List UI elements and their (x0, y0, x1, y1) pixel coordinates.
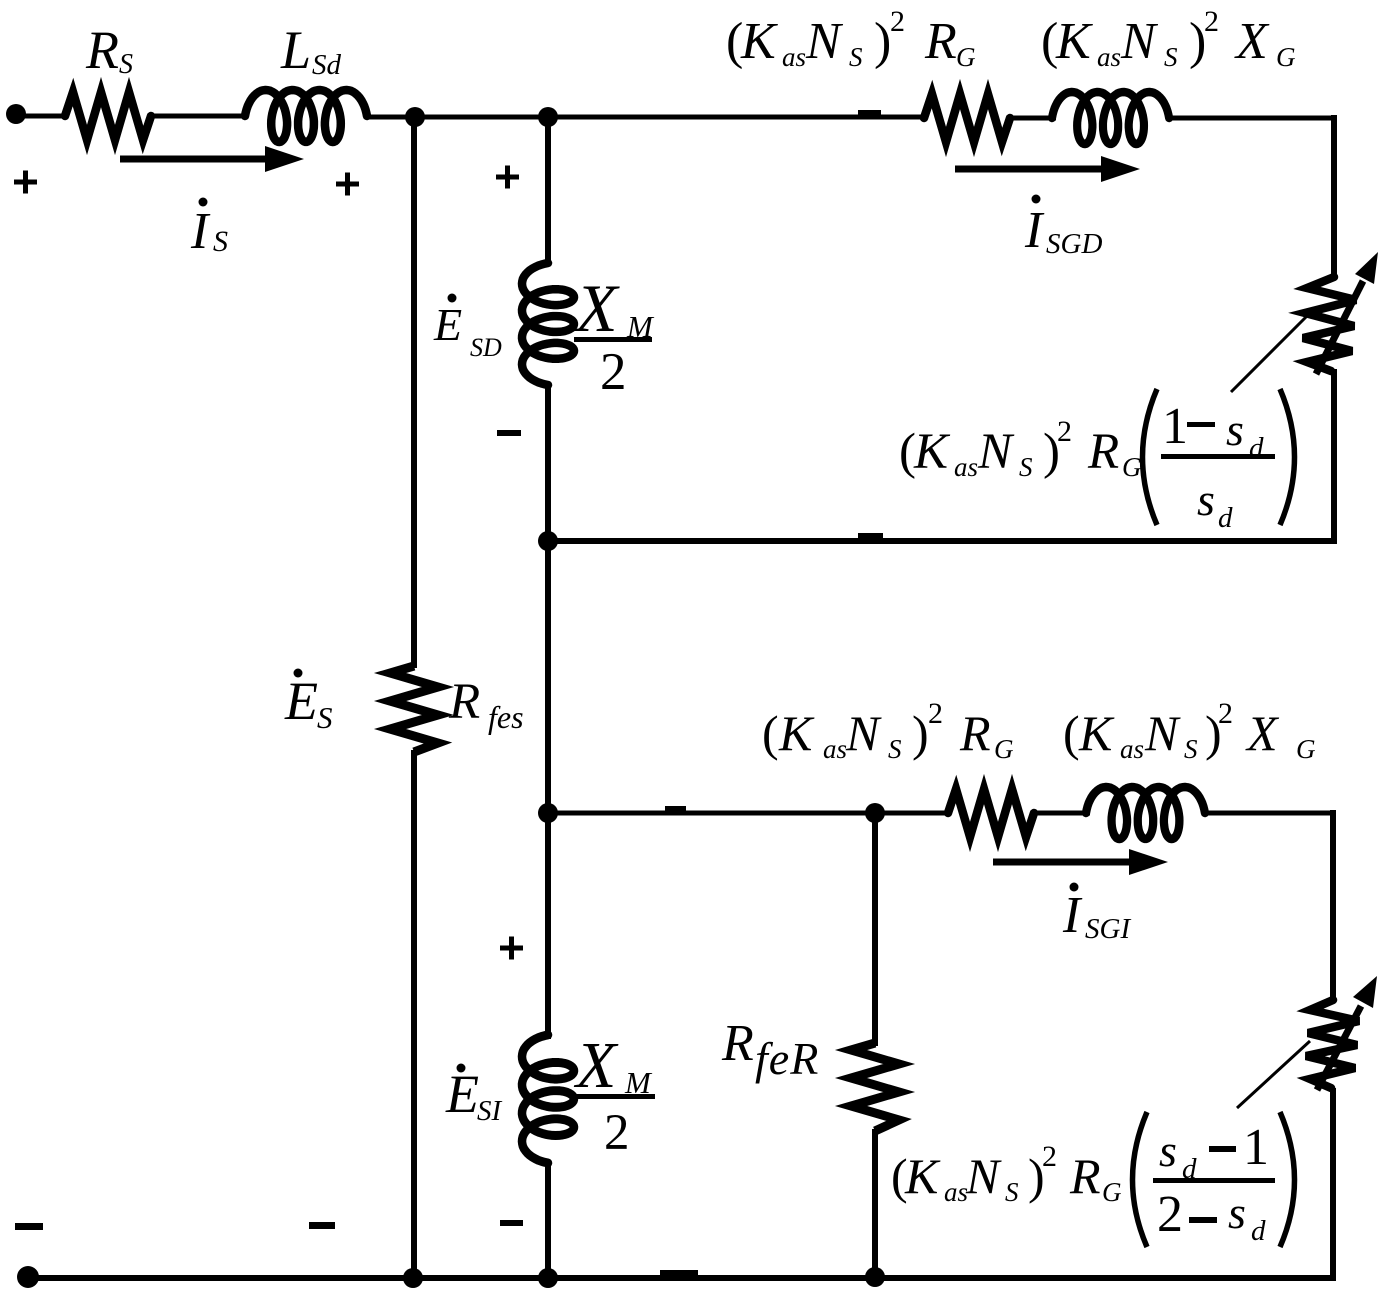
svg-text:as: as (954, 452, 978, 482)
svg-text:d: d (1218, 502, 1233, 534)
wire: L_Sd across to upper R_G resistor (366, 115, 927, 120)
minus below E_SI (500, 1220, 523, 1226)
wire: between upper R_G and X_G (1008, 116, 1056, 121)
polarity tick on upper loop bottom wire (858, 533, 883, 539)
big parens upper fraction (1143, 389, 1158, 525)
svg-text:I: I (1024, 202, 1045, 259)
node: junction bottom rail / X_M branch (538, 1268, 558, 1288)
node: junction R_feR branch (865, 803, 885, 823)
node: junction top wire / X_M branch (538, 107, 558, 127)
svg-text:S: S (849, 42, 863, 72)
wire: right vertical down to upper variable resistor (1331, 115, 1337, 280)
svg-text:S: S (888, 734, 902, 764)
inductor L_Sd (245, 90, 367, 142)
svg-text:E: E (284, 671, 318, 731)
wire: mid vertical between X_M coil and junctions (545, 383, 551, 816)
minus bottom-left terminal (15, 1223, 43, 1230)
variable resistor (KasNS)^2 RG (sd-1)/(2-sd) (1306, 1000, 1359, 1088)
plus sign E_SI (500, 946, 523, 951)
svg-text:R: R (721, 1015, 754, 1072)
svg-text:S: S (1019, 452, 1033, 482)
svg-text:E: E (445, 1064, 479, 1124)
svg-text:N: N (1144, 705, 1181, 761)
inductor (KasNS)^2 X_G lower (1086, 787, 1205, 839)
resistor R_S (65, 92, 151, 140)
svg-text:G: G (1122, 452, 1142, 482)
svg-text:R: R (85, 20, 119, 80)
svg-text:R: R (448, 674, 480, 730)
wire: left vertical E_S branch upper part (411, 115, 417, 668)
svg-text:N: N (1120, 13, 1159, 70)
svg-text:2: 2 (1057, 415, 1072, 448)
svg-text:N: N (965, 1148, 1002, 1204)
svg-text:feR: feR (755, 1033, 819, 1084)
svg-text:fes: fes (488, 699, 524, 735)
svg-text:s: s (1159, 1125, 1177, 1176)
current arrow I_SGI (993, 859, 1142, 866)
svg-text:X: X (1234, 13, 1270, 70)
svg-text:1: 1 (1162, 398, 1188, 455)
wire: between lower R_G and X_G (1032, 811, 1090, 816)
svg-text:I: I (1062, 887, 1083, 944)
svg-text:d: d (1249, 432, 1264, 464)
svg-text:2: 2 (1157, 1186, 1183, 1243)
svg-text:G: G (994, 734, 1014, 764)
wire: bottom rail of upper loop (546, 538, 1337, 544)
wire: terminal to R_S (14, 114, 68, 119)
svg-text:K: K (740, 13, 778, 70)
svg-text:E: E (433, 299, 462, 350)
svg-text:S: S (1184, 734, 1198, 764)
svg-text:S: S (317, 700, 333, 735)
svg-text:R: R (959, 705, 991, 761)
minus below E_SD (497, 430, 521, 436)
svg-text:N: N (977, 424, 1015, 480)
svg-text:R: R (1087, 424, 1119, 480)
wire: mid vertical below lower coil (545, 1161, 551, 1280)
svg-text:G: G (1102, 1177, 1122, 1207)
svg-text:as: as (782, 42, 806, 72)
wire: mid vertical top segment (545, 115, 551, 265)
svg-text:(: ( (762, 705, 779, 761)
plus sign after L_Sd (336, 182, 359, 187)
svg-text:2: 2 (1218, 697, 1233, 730)
svg-text:2: 2 (604, 1105, 630, 1161)
inductor (KasNS)^2 X_G upper (1052, 92, 1169, 144)
arrow through upper variable resistor (1316, 281, 1363, 374)
svg-text:X: X (1245, 705, 1280, 761)
svg-text:SD: SD (470, 333, 502, 362)
svg-text:G: G (1296, 734, 1316, 764)
resistor (KasNS)^2 R_G upper (924, 94, 1010, 142)
svg-text:as: as (823, 734, 847, 764)
plus sign E_SD (496, 175, 519, 180)
resistor R_fes (390, 666, 438, 752)
node: junction E_SD branch / upper loop return (538, 531, 558, 551)
svg-text:N: N (845, 705, 882, 761)
svg-text:I: I (190, 203, 211, 260)
svg-text:SI: SI (477, 1095, 503, 1127)
resistor R_feR (851, 1043, 899, 1131)
svg-text:X: X (573, 270, 620, 346)
node: junction top wire / E_S branch (405, 107, 425, 127)
wire: lower loop top rail (548, 811, 950, 816)
current arrow I_SGD (955, 166, 1114, 173)
wire: R_feR branch vertical top (872, 813, 878, 1046)
svg-text:): ) (912, 705, 929, 761)
svg-text:as: as (1120, 734, 1144, 764)
svg-text:R: R (1069, 1148, 1101, 1204)
svg-text:S: S (119, 49, 133, 80)
node: junction bottom rail / E_S branch (403, 1268, 423, 1288)
svg-text:K: K (1055, 13, 1093, 70)
svg-text:as: as (944, 1177, 968, 1207)
inductor X_M/2 lower (522, 1035, 574, 1163)
svg-text:N: N (805, 13, 844, 70)
minus E_S bottom (309, 1222, 335, 1229)
wire: left vertical E_S branch lower part (411, 750, 417, 1280)
node: junction lower loop tap (538, 803, 558, 823)
svg-text:s: s (1197, 474, 1215, 525)
current arrow I_S (120, 156, 278, 163)
resistor (KasNS)^2 R_G lower (948, 789, 1034, 837)
svg-text:): ) (874, 13, 891, 70)
plus sign input terminal (14, 180, 37, 185)
svg-text:Sd: Sd (312, 49, 342, 81)
svg-text:K: K (904, 1148, 941, 1204)
svg-text:2: 2 (1042, 1140, 1057, 1173)
node: junction R_feR / bottom rail (865, 1267, 885, 1287)
svg-text:K: K (778, 705, 815, 761)
wire: lower X_G to corner (1202, 811, 1336, 816)
node: bottom-left terminal (17, 1266, 39, 1288)
wire: bottom rail (28, 1275, 1336, 1281)
svg-text:2: 2 (600, 343, 627, 401)
wire: right vertical of lower loop to variable resistor (1330, 810, 1336, 1003)
svg-text:1: 1 (1243, 1119, 1269, 1176)
svg-text:K: K (1078, 705, 1115, 761)
svg-text:2: 2 (890, 5, 905, 38)
wire: R_feR branch vertical bottom (872, 1129, 878, 1280)
svg-text:s: s (1226, 404, 1244, 455)
svg-text:as: as (1097, 42, 1121, 72)
big parens lower fraction (1133, 1112, 1148, 1247)
variable resistor (KasNS)^2 RG (1-sd)/sd (1303, 277, 1356, 371)
svg-text:G: G (1276, 42, 1296, 72)
svg-text:R: R (924, 13, 957, 70)
svg-text:X: X (573, 1029, 619, 1102)
svg-text:S: S (213, 225, 228, 258)
polarity tick on lower loop top wire (665, 806, 686, 811)
arrow through lower variable resistor (1317, 1006, 1361, 1090)
svg-text:SGI: SGI (1085, 913, 1131, 945)
svg-text:2: 2 (928, 697, 943, 730)
svg-text:s: s (1228, 1187, 1246, 1238)
polarity tick on bottom rail (660, 1270, 698, 1275)
polarity tick on top wire (858, 110, 881, 115)
inductor X_M/2 upper (522, 263, 574, 385)
svg-text:(: ( (1063, 705, 1080, 761)
svg-text:G: G (956, 42, 976, 72)
wire: R_S to L_Sd (150, 114, 248, 119)
wire: below upper variable resistor to corner (1331, 369, 1337, 541)
wire: mid vertical down to lower X_M coil (545, 813, 551, 1039)
svg-text:2: 2 (1204, 5, 1219, 38)
svg-text:S: S (1005, 1177, 1019, 1207)
wire: below lower variable resistor (1330, 1088, 1336, 1281)
node: input terminal top-left (6, 104, 26, 124)
svg-text:SGD: SGD (1046, 228, 1102, 260)
svg-text:K: K (913, 424, 951, 480)
svg-text:S: S (1164, 42, 1178, 72)
svg-text:L: L (280, 20, 311, 80)
pointer line to lower variable resistor (1237, 1041, 1310, 1108)
pointer line to upper variable resistor (1231, 314, 1309, 392)
wire: upper X_G to top-right corner (1167, 116, 1337, 121)
svg-text:d: d (1251, 1215, 1266, 1247)
